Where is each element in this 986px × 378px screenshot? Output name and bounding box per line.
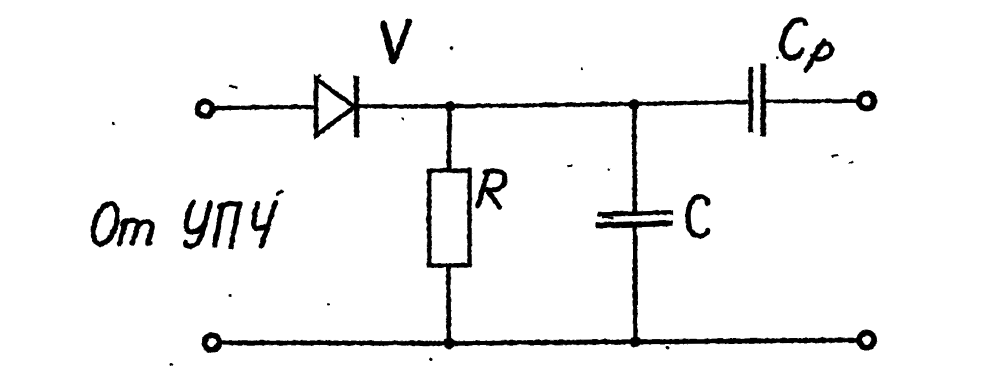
speck below bottom rail middle — [429, 358, 432, 361]
speck right of node B area — [580, 67, 582, 69]
diode V cathode bar — [353, 75, 358, 137]
speck right of Cp — [831, 155, 838, 156]
capacitor Cp right plate — [760, 63, 765, 136]
capacitor Cp left plate — [748, 66, 753, 131]
output terminal bottom-right — [859, 332, 874, 347]
junction dot bottom under R — [443, 337, 454, 348]
speck above node A — [449, 46, 453, 50]
diode V triangle top-left overshoot — [316, 75, 321, 79]
wire top: input terminal to diode anode — [213, 106, 314, 107]
speck below diode right — [401, 117, 404, 120]
speck far right below Cp — [848, 160, 853, 163]
wire: capacitor C bottom plate to bottom rail — [632, 225, 637, 342]
resistor R body — [429, 170, 469, 265]
wire: resistor R bottom to bottom rail — [445, 265, 450, 344]
label "От" (From) — [88, 200, 152, 246]
capacitor C top plate drip — [601, 215, 613, 218]
junction dot bottom under C — [629, 336, 640, 347]
speck above input wire — [229, 85, 238, 87]
wire bottom rail — [222, 340, 857, 343]
diode V triangle — [316, 78, 354, 135]
wire top: capacitor Cp right plate to output terminal — [765, 98, 857, 103]
label Cp (coupling capacitor) — [781, 19, 831, 70]
wire: node B down to capacitor C top plate — [631, 104, 636, 213]
speck below bottom rail left — [170, 363, 173, 366]
wire top: node B to capacitor Cp left plate — [634, 101, 748, 103]
speck below diode area — [327, 303, 330, 306]
label C (capacitor) — [687, 196, 707, 236]
speck above bottom rail right of C — [666, 346, 669, 349]
input terminal top-left — [197, 101, 212, 116]
input terminal bottom-left — [204, 335, 219, 350]
label R (resistor) — [477, 170, 504, 207]
speck left margin — [111, 121, 114, 124]
speck below Om label — [229, 294, 232, 297]
label "УПЧ" (IF amplifier) — [185, 191, 282, 246]
capacitor C bottom plate — [595, 223, 672, 225]
speck above C plate — [607, 168, 610, 171]
wire top: diode cathode to node A — [357, 103, 450, 107]
wire: node A down to resistor R top — [448, 106, 449, 171]
output terminal top-right — [859, 93, 874, 108]
wire top: node A to node B — [450, 103, 634, 105]
node B junction dot — [628, 98, 639, 109]
node A junction dot — [444, 100, 455, 111]
label V (diode) — [383, 21, 409, 61]
speck left of Cp label — [775, 56, 778, 59]
capacitor C top plate — [597, 212, 673, 214]
speck left of C branch — [567, 164, 572, 167]
